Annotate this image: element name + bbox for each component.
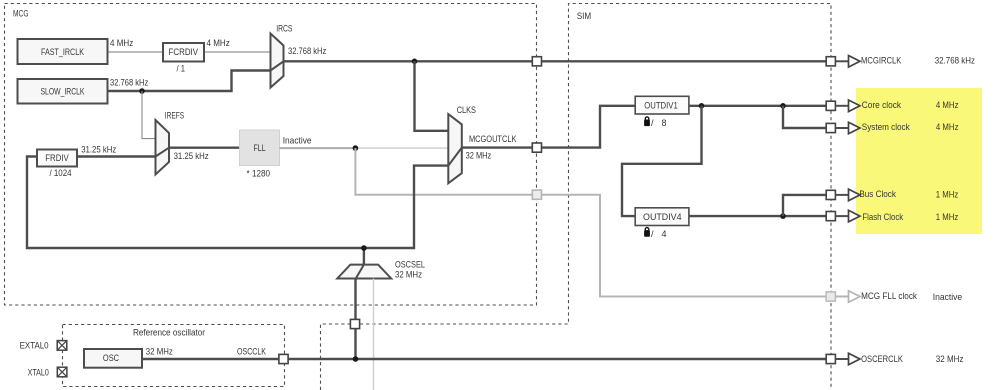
svg-text:/ 1: / 1 <box>177 63 186 73</box>
port MCG FLL clock at SIM boundary (inactive) <box>826 292 835 301</box>
port System clock at SIM boundary <box>826 123 835 132</box>
lock icon OUTDIV1 <box>644 117 650 126</box>
block FLL (inactive) <box>240 130 280 179</box>
arrow Core clock <box>835 100 860 112</box>
svg-text:OSC: OSC <box>103 353 120 363</box>
junction on FLL output <box>353 145 359 151</box>
svg-text:OUTDIV1: OUTDIV1 <box>644 100 678 110</box>
junction OUTDIV1 output a <box>699 103 705 109</box>
wire OUTDIV1 to OUTDIV4 <box>622 106 702 216</box>
junction OUTDIV1 output b <box>780 103 786 109</box>
wire FLL output (inactive) <box>280 147 356 149</box>
mux OSCSEL <box>337 265 391 279</box>
svg-text:XTAL0: XTAL0 <box>28 367 49 377</box>
svg-text:/ 8: / 8 <box>651 118 667 128</box>
MCG module dashed box <box>5 4 537 306</box>
svg-text:IRCS: IRCS <box>276 24 292 34</box>
svg-text:OUTDIV4: OUTDIV4 <box>643 212 682 222</box>
arrow Bus Clock <box>835 189 860 201</box>
svg-text:1 MHz: 1 MHz <box>936 189 959 199</box>
svg-text:System clock: System clock <box>862 122 910 132</box>
wire FAST_IRCLK to FCRDIV (inactive) <box>108 51 164 53</box>
svg-text:Reference oscillator: Reference oscillator <box>133 328 205 338</box>
Reference oscillator dashed box <box>63 325 285 387</box>
svg-text:/ 4: / 4 <box>651 229 667 239</box>
mux IRCS <box>271 24 293 88</box>
wire branch to System clock <box>783 106 831 128</box>
svg-text:32 MHz: 32 MHz <box>936 354 964 364</box>
svg-text:4 MHz: 4 MHz <box>936 100 959 110</box>
wire FLL to CLKS (inactive) <box>355 147 448 149</box>
junction OUTDIV4 output <box>780 213 786 219</box>
pin XTAL0 <box>28 367 67 377</box>
block FAST_IRCLK <box>18 39 108 64</box>
svg-text:32.768 kHz: 32.768 kHz <box>935 56 976 66</box>
junction on SLOW_IRCLK line <box>139 88 145 94</box>
wire SLOW_IRCLK to IRCS <box>108 71 271 92</box>
wire OSCSEL output distribution <box>364 166 448 265</box>
SIM module dashed boundary <box>321 4 832 390</box>
svg-text:IREFS: IREFS <box>165 111 184 121</box>
port MCGOUTCLK at MCG boundary <box>532 143 541 152</box>
mux IREFS <box>156 111 185 175</box>
svg-text:31.25 kHz: 31.25 kHz <box>81 145 117 155</box>
svg-text:OSCSEL: OSCSEL <box>395 260 425 270</box>
svg-text:FAST_IRCLK: FAST_IRCLK <box>41 47 84 57</box>
port OSCERCLK at SIM boundary <box>826 354 835 363</box>
svg-text:MCGOUTCLK: MCGOUTCLK <box>469 134 516 144</box>
svg-text:32 MHz: 32 MHz <box>395 270 422 280</box>
arrow MCG FLL clock (inactive) <box>835 291 860 303</box>
svg-text:FLL: FLL <box>254 143 266 153</box>
block SLOW_IRCLK <box>18 79 108 104</box>
svg-text:EXTAL0: EXTAL0 <box>20 341 49 351</box>
wire OUTDIV4 to Flash Clock <box>689 215 831 217</box>
svg-text:OSCCLK: OSCCLK <box>237 347 266 357</box>
svg-text:31.25 kHz: 31.25 kHz <box>174 151 210 161</box>
divider OUTDIV4 <box>635 208 689 226</box>
port OSCCLK at Reference oscillator boundary <box>279 354 288 363</box>
svg-text:Core clock: Core clock <box>862 100 902 110</box>
wire MCG FLL clock route (inactive) <box>355 148 826 296</box>
divider FCRDIV <box>163 43 204 73</box>
svg-text:32 MHz: 32 MHz <box>146 347 173 357</box>
port Flash Clock at SIM boundary <box>826 212 835 221</box>
port Core clock at SIM boundary <box>826 101 835 110</box>
arrow OSCERCLK <box>835 353 860 365</box>
svg-text:4 MHz: 4 MHz <box>110 38 134 48</box>
svg-text:MCG FLL clock: MCG FLL clock <box>861 291 917 301</box>
port MCGIRCLK at MCG boundary <box>532 57 541 66</box>
svg-text:32.768 kHz: 32.768 kHz <box>288 46 327 56</box>
junction OSCCLK branch <box>353 356 359 362</box>
svg-text:CLKS: CLKS <box>457 105 476 115</box>
divider FRDIV <box>37 150 77 179</box>
wire OSCCLK up to OSCSEL <box>354 279 356 360</box>
svg-text:SLOW_IRCLK: SLOW_IRCLK <box>41 87 85 97</box>
port MCG FLL clock at MCG boundary (inactive) <box>532 190 541 199</box>
wire OSCCLK / OSCERCLK net <box>142 358 831 360</box>
svg-text:32.768 kHz: 32.768 kHz <box>110 78 149 88</box>
svg-text:Bus Clock: Bus Clock <box>859 189 896 199</box>
port MCGIRCLK at SIM boundary <box>826 57 835 66</box>
svg-text:/ 1024: / 1024 <box>49 168 71 178</box>
wire branch to Bus Clock <box>783 195 831 216</box>
svg-text:4 MHz: 4 MHz <box>936 122 959 132</box>
block OSC <box>84 349 142 368</box>
pin EXTAL0 <box>20 341 67 351</box>
svg-text:1 MHz: 1 MHz <box>936 212 959 222</box>
wire OUTDIV1 to Core clock <box>689 105 831 107</box>
svg-text:* 1280: * 1280 <box>247 169 271 179</box>
arrow MCGIRCLK <box>835 56 860 68</box>
wire FRDIV feedback from OSCSEL <box>27 157 364 249</box>
wire FRDIV to IREFS <box>77 155 156 157</box>
svg-text:FCRDIV: FCRDIV <box>169 47 199 57</box>
arrow Flash Clock <box>835 210 860 222</box>
port OSCCLK at SIM boundary <box>350 319 359 328</box>
svg-text:OSCERCLK: OSCERCLK <box>861 354 903 364</box>
svg-text:MCGIRCLK: MCGIRCLK <box>861 56 901 66</box>
wire FCRDIV to IRCS (inactive) <box>204 51 271 53</box>
arrow System clock <box>835 122 860 134</box>
svg-text:32 MHz: 32 MHz <box>466 151 492 161</box>
wire MCGOUTCLK to SIM <box>462 106 635 148</box>
wire branch IRCS to CLKS <box>415 61 449 131</box>
divider OUTDIV1 <box>635 96 689 114</box>
wire RTC input to OSCSEL (inactive) <box>373 279 375 390</box>
mux CLKS <box>448 105 476 184</box>
svg-text:4 MHz: 4 MHz <box>207 38 231 48</box>
highlight yellow output group <box>856 88 982 234</box>
svg-text:Flash Clock: Flash Clock <box>862 212 903 222</box>
svg-text:FRDIV: FRDIV <box>45 153 69 163</box>
svg-text:Inactive: Inactive <box>283 136 312 146</box>
svg-text:Inactive: Inactive <box>933 292 963 302</box>
junction OSCSEL output <box>361 245 367 251</box>
junction on MCGIRCLK net <box>412 59 418 65</box>
lock icon OUTDIV4 <box>644 228 650 237</box>
port Bus Clock at SIM boundary <box>826 190 835 199</box>
wire SLOW_IRCLK branch to IREFS <box>142 91 156 139</box>
svg-text:MCG: MCG <box>13 9 29 19</box>
wire IRCS output / MCGIRCLK net <box>284 60 832 62</box>
wire IREFS to FLL <box>169 146 240 148</box>
svg-text:SIM: SIM <box>577 11 592 21</box>
